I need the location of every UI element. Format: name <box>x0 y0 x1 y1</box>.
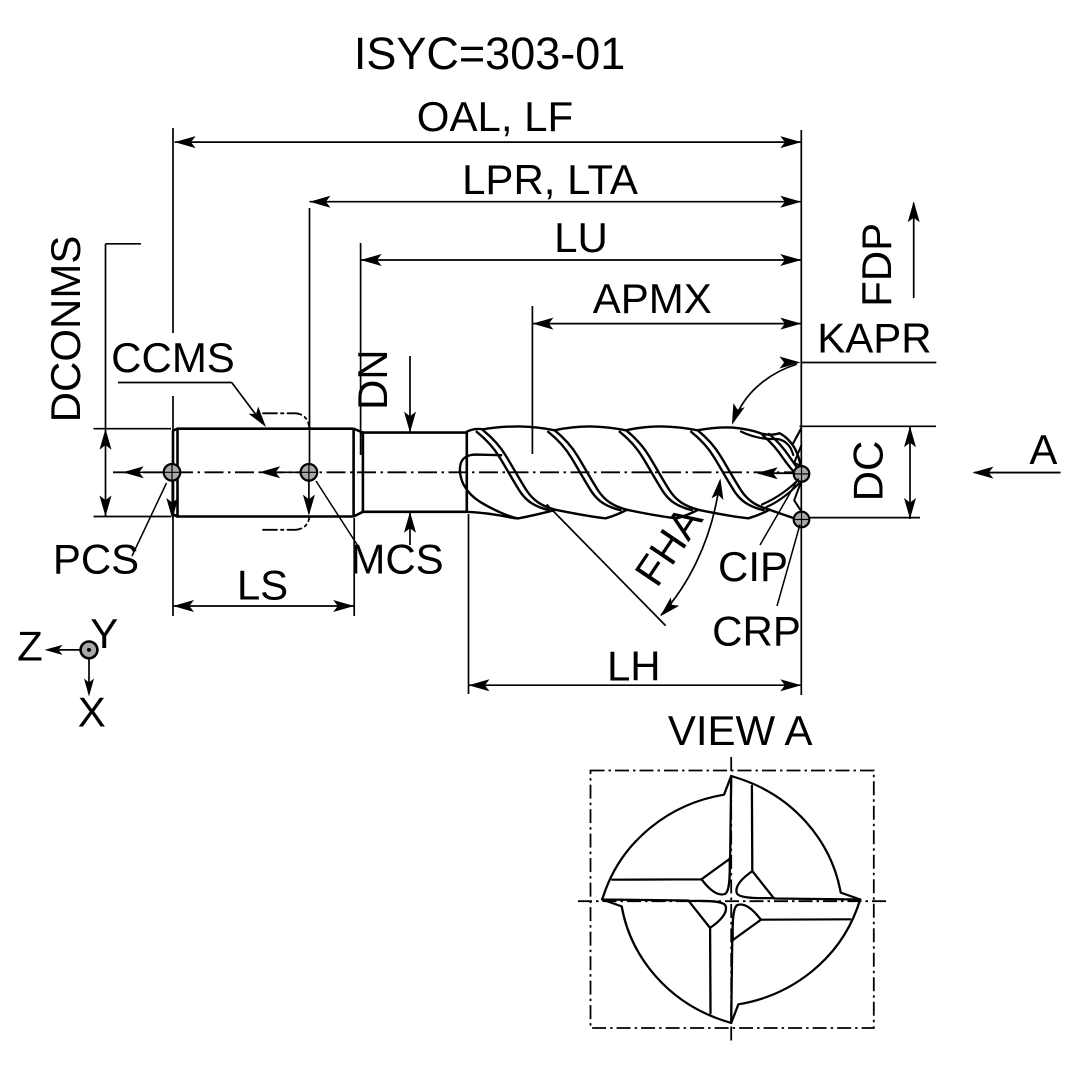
svg-text:CRP: CRP <box>712 608 801 655</box>
svg-text:Y: Y <box>90 610 118 657</box>
svg-text:LPR, LTA: LPR, LTA <box>462 156 638 203</box>
svg-text:KAPR: KAPR <box>817 315 931 362</box>
svg-text:Z: Z <box>17 622 43 669</box>
svg-text:MCS: MCS <box>350 536 443 583</box>
svg-text:X: X <box>78 688 106 735</box>
svg-text:FDP: FDP <box>853 223 900 307</box>
svg-text:APMX: APMX <box>593 275 712 322</box>
svg-text:LU: LU <box>554 214 608 261</box>
svg-text:CCMS: CCMS <box>111 334 235 381</box>
svg-text:A: A <box>1029 426 1057 473</box>
svg-text:LS: LS <box>237 562 288 609</box>
svg-text:PCS: PCS <box>53 536 139 583</box>
svg-text:CIP: CIP <box>718 543 788 590</box>
svg-text:OAL, LF: OAL, LF <box>417 93 573 140</box>
svg-text:DN: DN <box>349 349 396 410</box>
svg-text:DCONMS: DCONMS <box>42 236 89 423</box>
svg-text:ISYC=303-01: ISYC=303-01 <box>354 28 625 79</box>
svg-text:DC: DC <box>845 441 892 502</box>
svg-text:VIEW A: VIEW A <box>668 707 813 754</box>
svg-text:LH: LH <box>607 642 661 689</box>
